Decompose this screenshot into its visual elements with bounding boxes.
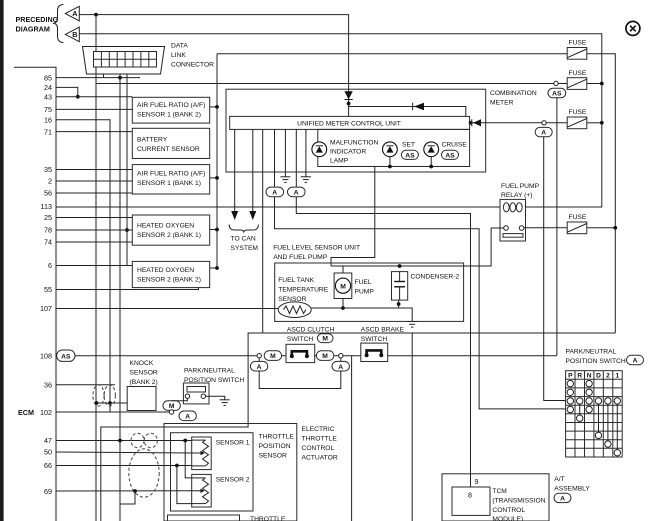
svg-text:SENSOR 2 (BANK 2): SENSOR 2 (BANK 2) [137,277,201,284]
svg-text:POSITION: POSITION [259,443,291,450]
fuse 2 with AS connector [567,70,587,90]
svg-text:CURRENT SENSOR: CURRENT SENSOR [137,146,200,153]
svg-text:TO CAN: TO CAN [231,235,256,242]
svg-text:8: 8 [468,491,472,500]
node condenser top [398,264,402,268]
svg-text:ASCD BRAKE: ASCD BRAKE [361,326,405,333]
svg-text:AIR FUEL RATIO (A/F): AIR FUEL RATIO (A/F) [137,102,205,109]
svg-text:SWITCH: SWITCH [361,336,388,343]
knock sensor box [127,360,158,411]
svg-text:SWITCH: SWITCH [287,336,314,343]
svg-text:TCM: TCM [492,488,507,495]
svg-text:DATA: DATA [171,43,188,50]
svg-text:55: 55 [44,285,52,294]
svg-text:(BANK 2): (BANK 2) [130,379,158,386]
wire stub AFR-B1 [210,177,217,179]
connector triangle A [65,6,79,21]
diode D3 on meter output [470,122,543,124]
svg-text:M: M [322,353,328,360]
svg-text:CONDENSER-2: CONDENSER-2 [411,273,460,280]
svg-text:CRUISE: CRUISE [442,142,468,149]
svg-text:AS: AS [61,353,71,360]
svg-text:HEATED OXYGEN: HEATED OXYGEN [137,267,194,274]
svg-text:PRECEDING: PRECEDING [16,15,59,24]
svg-text:A: A [72,9,77,18]
svg-text:25: 25 [44,213,52,222]
svg-text:SYSTEM: SYSTEM [231,245,259,252]
node DLC stub on pin85 wire [118,76,122,80]
condenser-2 [392,272,460,301]
svg-text:PARK/NEUTRAL: PARK/NEUTRAL [184,368,235,375]
CRUISE lamp [424,142,468,160]
throttle control motor box (cut) [168,515,240,521]
svg-text:FUSE: FUSE [569,214,587,221]
grid selector circles lower [577,404,621,456]
svg-text:2: 2 [606,373,610,380]
svg-text:74: 74 [44,238,52,247]
svg-text:FUSE: FUSE [569,70,587,77]
data link connector [83,47,165,75]
svg-text:FUSE: FUSE [569,40,587,47]
svg-text:THROTTLE: THROTTLE [259,433,295,440]
wire pin66 to sensor2 bottom [177,466,192,504]
svg-text:2: 2 [48,177,52,186]
svg-text:FUEL PUMP: FUEL PUMP [501,183,540,190]
connector triangle B [65,27,79,42]
svg-text:COMBINATION: COMBINATION [490,90,537,97]
svg-text:METER: METER [490,100,514,107]
wire from B to right power bus [79,34,602,207]
node shield 1 [95,401,99,405]
node below D1 [347,102,351,106]
wire from A to combination meter feed [79,15,348,117]
wire A drop to PNP grid row3 [544,137,566,401]
svg-text:SENSOR 1 (BANK 1): SENSOR 1 (BANK 1) [137,180,201,187]
wire relay contact to fuel pump [331,228,504,266]
node DLC line joins pin47 [118,439,122,443]
svg-text:24: 24 [44,83,52,92]
svg-text:SENSOR 1 (BANK 2): SENSOR 1 (BANK 2) [137,112,201,119]
A connector bypass right [340,358,342,362]
wire stub HO2S-B1 [210,229,217,231]
svg-text:TEMPERATURE: TEMPERATURE [278,287,329,294]
svg-text:1: 1 [615,373,619,380]
svg-text:FUEL: FUEL [355,279,372,286]
svg-text:36: 36 [44,380,52,389]
electric throttle control actuator box [164,424,297,521]
svg-text:HEATED OXYGEN: HEATED OXYGEN [137,223,194,230]
heated oxygen sensor 2 bank 1 [132,215,209,245]
battery current sensor [132,128,209,158]
svg-text:A: A [185,413,190,420]
throttle position sensor box [171,433,254,511]
ground meter 2 [305,129,307,176]
svg-text:66: 66 [44,461,52,470]
svg-text:85: 85 [44,73,52,82]
svg-text:9: 9 [475,477,479,486]
ascd brake switch [361,326,405,361]
svg-text:BATTERY: BATTERY [137,137,168,144]
heated oxygen sensor 2 bank 2 [132,261,209,287]
UMCU stub to A connector 1 [274,129,276,187]
brace [53,5,64,43]
wire pin47 to sensor2 top [185,441,192,478]
svg-text:107: 107 [40,304,52,313]
wire DLC stub to sensor column [126,74,128,266]
wire bypass U [259,371,341,389]
svg-text:56: 56 [44,189,52,198]
malfunction indicator lamp [312,139,379,164]
wire shield drain jog [120,491,135,504]
sensor 1 potentiometer [192,437,250,470]
svg-text:CONNECTOR: CONNECTOR [171,62,214,69]
diode D2 pointing left [414,103,424,110]
svg-text:M: M [322,336,328,343]
diode D1 feed from fuse wire [344,91,352,99]
svg-text:A: A [560,496,565,503]
M connector under PNP [172,398,188,400]
svg-text:POSITION SWITCH: POSITION SWITCH [566,358,626,365]
svg-text:CONTROL: CONTROL [492,507,525,514]
svg-text:P: P [568,373,573,380]
fuel pump motor [334,273,374,299]
node ascd inline connector left [257,354,261,358]
ground under fuel box [407,322,417,328]
TCM box [452,487,490,515]
svg-text:A: A [633,358,638,365]
wire meter to PNP grid column 1 [263,332,616,334]
lamp ground stubs [389,157,391,167]
wire A1 to PNP grid row4 [275,197,566,409]
wire pump/condenser bottoms to ground [311,307,343,309]
svg-text:LAMP: LAMP [330,157,349,164]
svg-text:INDICATOR: INDICATOR [330,148,366,155]
SET lamp [383,142,419,160]
svg-text:LINK: LINK [171,52,186,59]
svg-text:SENSOR 2: SENSOR 2 [216,476,250,483]
wire pin108 to clutch switch [75,355,257,357]
svg-text:ELECTRIC: ELECTRIC [302,426,335,433]
svg-text:PUMP: PUMP [355,289,375,296]
wire stub AFR-B2 [210,106,217,108]
wire PNP to ground [206,396,225,400]
node pin66 branch [175,464,179,468]
svg-text:102: 102 [40,408,52,417]
svg-text:71: 71 [44,127,52,136]
combination meter box [226,89,486,172]
svg-text:MALFUNCTION: MALFUNCTION [330,139,378,146]
node A-line / DLC branch [94,13,98,17]
wire brake drop to bottom [351,356,353,521]
svg-text:SET: SET [402,142,415,149]
PNP switch grid [566,371,623,457]
M connector left [264,351,281,361]
svg-text:A: A [294,190,299,197]
wire fuel pump top stub [342,266,344,273]
svg-text:A: A [338,364,343,371]
svg-text:R: R [577,373,582,380]
grid contact circles [567,380,620,412]
svg-text:SENSOR: SENSOR [259,452,287,459]
svg-text:AIR FUEL RATIO (A/F): AIR FUEL RATIO (A/F) [137,170,205,177]
svg-text:108: 108 [40,351,52,360]
UMCU long stub to PNP feed [262,129,264,333]
svg-text:SENSOR 2 (BANK 1): SENSOR 2 (BANK 1) [137,232,201,239]
svg-text:A: A [257,364,262,371]
svg-text:M: M [270,353,276,360]
svg-text:35: 35 [44,165,52,174]
svg-text:ASSEMBLY: ASSEMBLY [554,486,590,493]
svg-text:M: M [169,403,175,410]
svg-text:M: M [340,284,346,291]
M connector right [315,355,317,357]
fuse 3 with A connector [567,109,587,129]
svg-text:ACTUATOR: ACTUATOR [302,455,338,462]
A connector on pin102 wire [179,411,196,421]
svg-text:ECM: ECM [18,408,34,417]
svg-text:DIAGRAM: DIAGRAM [16,25,50,34]
svg-text:N: N [587,373,592,380]
fuel level sensor unit box [275,263,464,321]
svg-text:A: A [272,190,277,197]
svg-text:AS: AS [552,91,562,98]
wire drop right of brake switch [411,333,413,521]
park/neutral position switch (at ECM) [183,368,244,404]
ascd clutch switch [286,326,335,362]
close button (X in circle) [626,21,640,35]
svg-text:FUEL TANK: FUEL TANK [278,277,314,284]
wire A2 to TCM pin 9 [296,197,470,487]
wire shield to knock sensor [97,402,128,404]
svg-text:THROTTLE: THROTTLE [302,436,338,443]
A/T assembly box [442,474,549,521]
svg-text:47: 47 [44,436,52,445]
wire internal meter feed [349,107,466,117]
svg-text:SENSOR 1: SENSOR 1 [216,439,250,446]
fuel pump relay [500,183,540,241]
fuel tank temperature sensor [278,277,329,318]
svg-text:UNIFIED METER CONTROL UNIT: UNIFIED METER CONTROL UNIT [297,121,401,128]
svg-text:D: D [596,373,601,380]
unified meter control unit [230,116,470,129]
svg-text:RELAY (+): RELAY (+) [501,192,533,199]
wire sensor feed vertical from pin 85 [216,54,218,268]
svg-text:CONTROL: CONTROL [302,445,335,452]
wire AS drop to ASCD brake wire [556,98,558,356]
svg-text:43: 43 [44,92,52,101]
A connector bypass left [258,358,260,362]
svg-text:AS: AS [405,152,415,159]
svg-text:SENSOR: SENSOR [130,369,158,376]
svg-text:6: 6 [48,261,52,270]
svg-text:A: A [541,130,546,137]
page left border bar [0,0,4,521]
svg-text:KNOCK: KNOCK [130,360,154,367]
TPS shield small pair [131,433,144,447]
svg-text:AS: AS [445,152,455,159]
svg-text:THROTTLE: THROTTLE [250,516,286,521]
air fuel ratio sensor 1 bank 1 [132,165,209,194]
node stub joins HO2S wire [125,228,129,232]
enclosure box wires [101,333,263,521]
svg-text:MODULE): MODULE) [492,516,523,521]
UMCU stub to A connector 2 [295,129,297,187]
svg-text:FUSE: FUSE [569,109,587,116]
svg-text:50: 50 [44,447,52,456]
wire DLC stub long vertical [119,74,121,521]
node ascd inline connector right [339,354,343,358]
svg-text:AND FUEL PUMP: AND FUEL PUMP [273,254,328,261]
svg-text:(TRANSMISSION: (TRANSMISSION [492,498,545,505]
node pin47 branch [183,439,187,443]
wire to brake switch and AS drop [343,355,361,357]
svg-text:113: 113 [41,202,52,211]
svg-text:75: 75 [44,105,52,114]
knock sensor shield [93,385,104,406]
sensor 2 potentiometer [192,474,250,507]
wire DLC to AS connector (fuse row) [96,83,554,85]
inner lamp box [318,129,470,166]
svg-text:ASCD CLUTCH: ASCD CLUTCH [287,326,335,333]
fuse 4 [567,214,587,234]
wire stub HO2S-B2 [210,267,217,269]
svg-text:16: 16 [44,115,52,124]
wire DLC stub to pin85 [103,74,105,78]
ECM connector bus [14,67,56,521]
node shield 2 [108,401,112,405]
svg-text:PARK/NEUTRAL: PARK/NEUTRAL [566,348,617,355]
node shield drain on pin69 [133,489,137,493]
UMCU bottom stub CAN-L arrow [234,129,236,212]
ground meter 1 [284,129,286,176]
svg-text:FUEL LEVEL SENSOR UNIT: FUEL LEVEL SENSOR UNIT [273,244,360,251]
node inline connector on pin102 wire [169,410,173,414]
air fuel ratio sensor 1 bank 2 [132,97,209,123]
svg-text:78: 78 [44,226,52,235]
svg-text:B: B [72,30,77,39]
svg-text:69: 69 [44,487,52,496]
wire inner box stub to fuel pump [331,167,375,267]
UMCU bottom stub CAN-H arrow [252,129,254,212]
svg-text:A/T: A/T [554,476,564,483]
fuse 1 [567,40,587,60]
TPS shield large [129,449,159,497]
wire DLC K-line vertical to fuse row [95,15,97,52]
TO CAN bracket [229,225,258,233]
